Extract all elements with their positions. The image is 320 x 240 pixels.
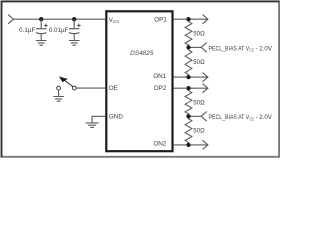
svg-text:0.1µF: 0.1µF (19, 27, 35, 34)
resistor R4 50ohm (185, 116, 192, 145)
svg-text:PECL_BIAS AT V: PECL_BIAS AT V (209, 114, 250, 121)
wire: GND pin to ground (92, 116, 105, 123)
svg-text:- 2.0V: - 2.0V (256, 45, 273, 52)
junction dots (186, 17, 190, 21)
svg-text:50Ω: 50Ω (193, 30, 205, 37)
svg-text:0.01µF: 0.01µF (49, 27, 69, 34)
svg-text:ON2: ON2 (153, 140, 166, 147)
resistor R2 50ohm (185, 47, 192, 77)
capacitor C2 0.01uF (69, 17, 81, 45)
svg-text:VCC: VCC (109, 17, 121, 24)
svg-text:50Ω: 50Ω (193, 128, 205, 135)
svg-text:OE: OE (109, 85, 118, 92)
wire: ON1 output with arrow (174, 76, 208, 78)
svg-text:CC: CC (250, 116, 255, 121)
resistor R3 50ohm (185, 88, 192, 116)
input arrow (VCC supply entry) (8, 15, 14, 24)
svg-text:50Ω: 50Ω (193, 59, 205, 66)
frame border (2, 1, 280, 156)
IC ground symbol (86, 123, 99, 128)
label PECL_BIAS 2 (209, 114, 273, 121)
wire: OP1 output with arrow (174, 18, 208, 20)
svg-text:PECL_BIAS AT V: PECL_BIAS AT V (209, 45, 250, 52)
svg-text:OP2: OP2 (154, 85, 167, 92)
node PECL_BIAS 1 wire+arrow (189, 46, 202, 48)
svg-text:CC: CC (250, 47, 255, 52)
switch ground (58, 90, 60, 96)
label PECL_BIAS 1 (209, 45, 273, 52)
wire: switch to OE pin (76, 87, 105, 89)
svg-text:GND: GND (109, 113, 123, 120)
resistor R1 50ohm (185, 19, 192, 47)
switch S1 (OE control) (57, 77, 77, 90)
node PECL_BIAS 2 wire+arrow (189, 115, 202, 117)
svg-text:- 2.0V: - 2.0V (256, 114, 273, 121)
wire: supply rail to VCC pin (14, 18, 106, 20)
wire: OP2 output with arrow (174, 87, 208, 89)
svg-text:DS4825: DS4825 (130, 50, 154, 57)
svg-text:50Ω: 50Ω (193, 99, 205, 106)
wire: ON2 output with arrow (174, 144, 208, 146)
svg-text:ON1: ON1 (153, 73, 166, 80)
op-amp/buffer IC U1 DS4825 box (106, 11, 172, 151)
capacitor C1 0.1uF (36, 17, 48, 45)
svg-text:OP1: OP1 (154, 17, 167, 24)
